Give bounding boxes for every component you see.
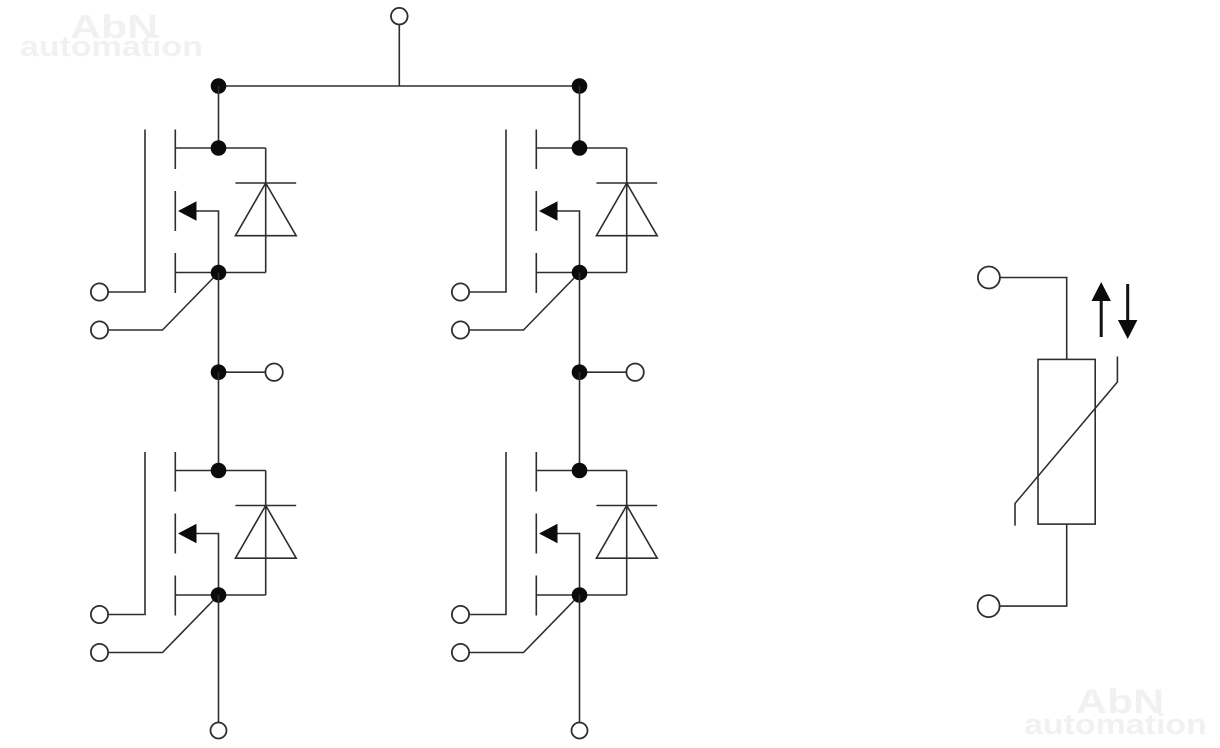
wire: D4 vertical branch [626,471,628,596]
junction dot: phase node [211,364,227,380]
diode D3 cathode bar [596,182,657,184]
wire: D3 cathode link [580,147,627,149]
wire: auxiliary source lead of Q4 [469,595,579,653]
transistor Q2 body arrow [178,524,197,543]
wire: source lead of Q2 [175,594,218,596]
diode D2 cathode bar [235,505,296,507]
wire: source of Q4 to negative terminal [579,595,581,723]
wire: source of Q2 to negative terminal [218,595,220,723]
wire: top DC bus [219,85,580,87]
wire: D2 cathode link [219,470,266,472]
wire: drain lead of Q4 [536,470,579,472]
wire: source lead of Q4 [536,594,579,596]
wire: D4 cathode link [580,470,627,472]
diode D3 triangle [596,183,657,236]
thermistor R1 diagonal stroke [1015,357,1117,526]
wire: D3 anode link [580,272,627,274]
wire: auxiliary source lead of Q1 [108,273,218,331]
wire: D4 anode link [580,594,627,596]
wire: source of Q1 to phase node [218,273,220,373]
junction dot: drain node of Q4 [572,463,588,479]
diode D4 triangle [596,506,657,559]
wire: D2 vertical branch [265,471,267,596]
arrow up (temperature) [1092,282,1111,337]
wire: D1 anode link [219,272,266,274]
wire: body connection of Q4 [556,534,580,596]
terminal circle: auxiliary source of Q3 [452,321,469,338]
wire: source lead of Q3 [536,272,579,274]
wire: phase node to drain of Q4 [579,372,581,470]
transistor Q1 channel (dashed body line) [174,130,176,294]
wire: source lead of Q1 [175,272,218,274]
junction dot: drain node of Q1 [211,140,227,156]
junction dot: source node of Q1 [211,265,227,281]
diode D2 triangle [235,506,296,559]
terminal circle: gate of Q4 [452,606,469,623]
transistor Q1 body arrow [178,201,197,220]
wire: gate lead of Q3 [469,130,506,293]
diode D1 cathode bar [235,182,296,184]
wire: auxiliary source lead of Q2 [108,595,218,653]
wire: D3 vertical branch [626,148,628,273]
wire: source of Q3 to phase node [579,273,581,373]
wire: D2 anode link [219,594,266,596]
junction dot: drain node of Q2 [211,463,227,479]
terminal circle: phase output node [626,364,643,381]
arrow down (resistance) [1118,284,1138,339]
terminal circle: thermistor top terminal [978,267,1000,289]
wire: body connection of Q3 [556,211,580,273]
wire: phase node stub [219,371,266,373]
wire: bus to drain of Q3 [579,86,581,148]
terminal circle: gate of Q2 [91,606,108,623]
wire: drain lead of Q1 [175,147,218,149]
wire: bus to drain of Q1 [218,86,220,148]
wire: body connection of Q2 [195,534,219,596]
junction dot: bus right node [572,78,588,94]
wire: D1 cathode link [219,147,266,149]
terminal circle: auxiliary source of Q1 [91,321,108,338]
wire: D1 vertical branch [265,148,267,273]
wire: drain lead of Q3 [536,147,579,149]
transistor Q4 channel (dashed body line) [535,452,537,616]
junction dot: source node of Q4 [572,587,588,603]
wire: thermistor bottom lead [1000,524,1067,606]
wire: thermistor top lead [1000,278,1067,360]
wire: gate lead of Q1 [108,130,145,293]
terminal circle: gate of Q1 [91,283,108,300]
terminal circle: thermistor bottom terminal [978,595,1000,617]
junction dot: phase node [572,364,588,380]
terminal circle: phase output node [265,364,282,381]
terminal circle: auxiliary source of Q2 [91,644,108,661]
junction dot: drain node of Q3 [572,140,588,156]
terminal circle: auxiliary source of Q4 [452,644,469,661]
wire: gate lead of Q4 [469,452,506,615]
terminal circle: negative terminal [211,723,227,739]
wire: auxiliary source lead of Q3 [469,273,579,331]
terminal circle: gate of Q3 [452,283,469,300]
wire: phase node to drain of Q2 [218,372,220,470]
diode D1 triangle [235,183,296,236]
transistor Q3 channel (dashed body line) [535,130,537,294]
wire: positive terminal to bus [398,25,400,87]
wire: gate lead of Q2 [108,452,145,615]
transistor Q4 body arrow [539,524,558,543]
terminal circle: positive DC terminal (top) [391,8,408,25]
watermark bottom-right [1076,685,1164,719]
junction dot: source node of Q3 [572,265,588,281]
thermistor R1 body (rectangle) [1038,359,1095,524]
wire: phase node stub [580,371,627,373]
wire: drain lead of Q2 [175,470,218,472]
junction dot: source node of Q2 [211,587,227,603]
terminal circle: negative terminal [572,723,588,739]
transistor Q3 body arrow [539,201,558,220]
wire: body connection of Q1 [195,211,219,273]
transistor Q2 channel (dashed body line) [174,452,176,616]
watermark top-left [70,10,158,43]
diode D4 cathode bar [596,505,657,507]
junction dot: bus left node [211,78,227,94]
